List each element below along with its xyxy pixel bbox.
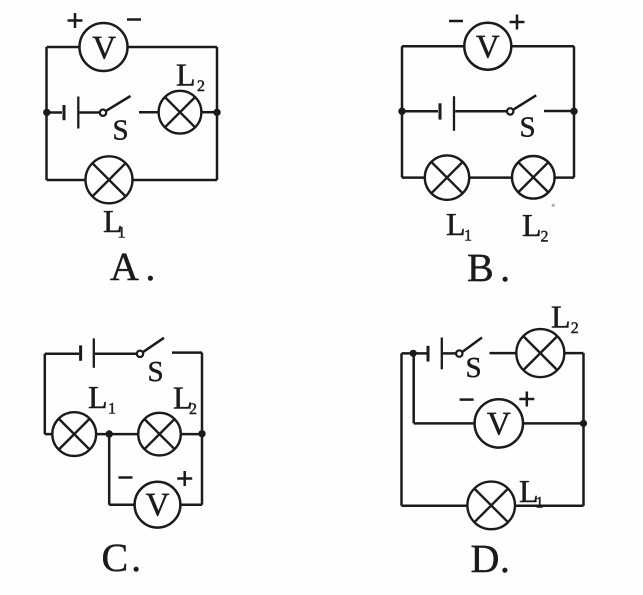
wire B middle-left (to battery) — [402, 110, 438, 113]
svg-text:L2: L2 — [522, 207, 549, 246]
wire A middle-left (to battery) — [47, 111, 63, 114]
voltmeter V (circuit B) — [464, 23, 511, 70]
svg-text:A.: A. — [110, 244, 162, 289]
svg-text:V: V — [476, 30, 500, 66]
wire voltmeter to right wire (C) — [180, 503, 202, 506]
wire between lamps (C) — [96, 433, 138, 436]
wire D outer-left vertical — [400, 353, 403, 505]
voltmeter V (circuit C) — [135, 482, 181, 528]
svg-text:L1: L1 — [88, 379, 116, 418]
minus label (voltmeter B, left) — [449, 20, 463, 23]
svg-text:L2: L2 — [176, 57, 205, 96]
svg-text:D.: D. — [471, 536, 511, 581]
lamp L1 (circuit B) — [425, 155, 469, 199]
wire battery to switch (D) — [443, 352, 456, 355]
wire D bottom (through lamp L1) — [402, 505, 584, 508]
plus label (voltmeter D, right) — [519, 392, 534, 407]
wire battery to switch (B) — [455, 110, 506, 113]
wire D top-left segment (to battery) — [402, 352, 427, 355]
svg-text:S: S — [466, 352, 482, 384]
svg-text:S: S — [520, 112, 536, 144]
wire voltmeter branch vertical (D) — [412, 353, 415, 423]
node dot B right — [570, 108, 577, 115]
svg-text:L1: L1 — [103, 203, 126, 242]
svg-text:L2: L2 — [551, 299, 579, 338]
voltmeter V (circuit A) — [80, 23, 128, 71]
wire A top (through voltmeter) — [47, 46, 218, 49]
wire C right vertical — [201, 353, 204, 505]
wire B top (through voltmeter) — [402, 45, 574, 48]
node dot D right — [580, 420, 587, 427]
minus label (voltmeter C, left) — [119, 476, 133, 479]
wire lamp L2 to right (D) — [564, 352, 583, 355]
lamp L1 (circuit C) — [52, 412, 96, 456]
wire battery to switch (C) — [95, 352, 136, 355]
lamp L2 (circuit C) — [138, 413, 181, 456]
minus label (voltmeter D, left) — [460, 398, 474, 401]
svg-text:S: S — [148, 356, 164, 388]
svg-text:V: V — [487, 406, 511, 442]
lamp L1 (circuit A) — [86, 156, 133, 203]
wire lamp L2 to right (C) — [181, 433, 202, 436]
svg-text:L1: L1 — [446, 206, 472, 245]
battery (circuit C) — [81, 338, 94, 367]
node dot B left — [398, 108, 405, 115]
battery (circuit B) — [440, 96, 454, 131]
minus label (voltmeter A, right) — [127, 18, 141, 21]
svg-text:L2: L2 — [173, 380, 197, 419]
wire B bottom (through lamps) — [402, 176, 574, 179]
switch S (circuit C) — [137, 338, 202, 357]
lamp L2 (circuit B) — [512, 156, 555, 199]
wire voltmeter branch horizontal left (C) — [109, 503, 134, 506]
svg-text:B.: B. — [467, 245, 517, 290]
node dot A left — [43, 109, 50, 116]
node dot C middle — [106, 430, 113, 437]
wire C left vertical — [44, 354, 47, 434]
battery (circuit A) — [64, 97, 78, 129]
svg-text:V: V — [92, 31, 116, 67]
wire C left stub to lamp L1 — [45, 433, 53, 436]
wire A right vertical — [216, 47, 219, 180]
voltmeter V (circuit D) — [475, 399, 523, 447]
wire battery to switch (A) — [80, 111, 100, 114]
node dot A right — [213, 109, 220, 116]
svg-text:V: V — [146, 488, 170, 524]
node dot D top-left — [410, 350, 417, 357]
plus label (voltmeter A, left) — [68, 13, 83, 28]
wire B right vertical — [573, 46, 576, 177]
node dot C right — [198, 430, 205, 437]
plus label (voltmeter B, right) — [510, 15, 525, 30]
wire voltmeter branch horizontal left (D) — [414, 422, 475, 425]
wire A bottom (through lamp L1) — [47, 179, 218, 182]
lamp L1 (circuit D) — [467, 482, 515, 530]
svg-text:C.: C. — [102, 535, 145, 580]
wire lamp L2 to right (A) — [201, 111, 217, 114]
svg-text:L1: L1 — [519, 473, 544, 512]
plus label (voltmeter C, right) — [177, 471, 192, 486]
battery (circuit D) — [428, 338, 442, 370]
wire C top-left segment (to battery) — [45, 352, 79, 355]
wire voltmeter branch vertical (C) — [108, 434, 111, 505]
wire D right vertical — [582, 353, 585, 506]
wire voltmeter to right wire (D) — [523, 422, 584, 425]
lamp L2 (circuit D) — [516, 329, 564, 377]
svg-text:S: S — [113, 115, 129, 147]
wire B left vertical — [401, 46, 404, 177]
lamp L2 (circuit A) — [159, 91, 202, 134]
switch S (circuit D) — [456, 338, 516, 357]
switch S (circuit B) — [507, 95, 574, 114]
speck (scan artifact near B) — [552, 204, 555, 207]
wire A left vertical — [45, 47, 48, 180]
switch S (circuit A) — [100, 96, 159, 116]
